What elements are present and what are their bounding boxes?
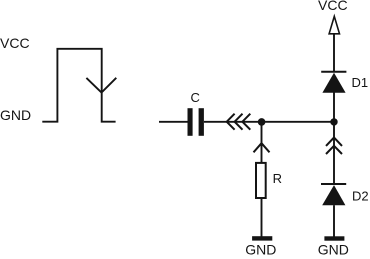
wire: D1 to node B bbox=[333, 93, 335, 122]
svg-text:GND: GND bbox=[318, 242, 349, 258]
current direction arrow (chevron up, above R) bbox=[254, 143, 270, 152]
wire: D2 to ground bbox=[333, 205, 335, 236]
ground bar (under R) bbox=[252, 236, 272, 240]
diode D2 (pointing up) bbox=[321, 184, 346, 205]
falling-edge arrow bbox=[86, 78, 116, 93]
wire: node A to node B bbox=[262, 121, 334, 123]
svg-text:GND: GND bbox=[0, 107, 31, 123]
svg-text:D2: D2 bbox=[352, 188, 369, 203]
node B (junction dot) bbox=[330, 118, 337, 125]
svg-text:GND: GND bbox=[245, 242, 276, 258]
svg-text:VCC: VCC bbox=[318, 0, 348, 13]
svg-text:D1: D1 bbox=[352, 75, 369, 90]
wire: resistor R to ground bbox=[261, 198, 263, 237]
current direction arrows (2 chevrons up, below node B) bbox=[326, 138, 342, 155]
current direction arrows (3 chevrons, pointing left) bbox=[227, 114, 251, 130]
wire: input to capacitor C bbox=[159, 121, 188, 123]
svg-text:R: R bbox=[273, 171, 282, 186]
svg-text:VCC: VCC bbox=[0, 35, 30, 51]
wire: capacitor C to node A bbox=[204, 121, 262, 123]
diode D1 (pointing up) bbox=[321, 72, 346, 93]
node A (junction dot) bbox=[258, 118, 266, 126]
resistor R bbox=[256, 163, 266, 198]
wire: node B to D2 bbox=[333, 122, 335, 184]
VCC arrow symbol (open triangle) bbox=[329, 16, 339, 34]
wire: VCC symbol to D1 bbox=[333, 34, 335, 72]
input pulse waveform bbox=[42, 49, 115, 122]
wire: node A down to resistor R bbox=[261, 122, 263, 163]
capacitor C bbox=[188, 108, 204, 136]
svg-text:C: C bbox=[191, 90, 200, 105]
ground bar (under D2) bbox=[324, 236, 344, 240]
